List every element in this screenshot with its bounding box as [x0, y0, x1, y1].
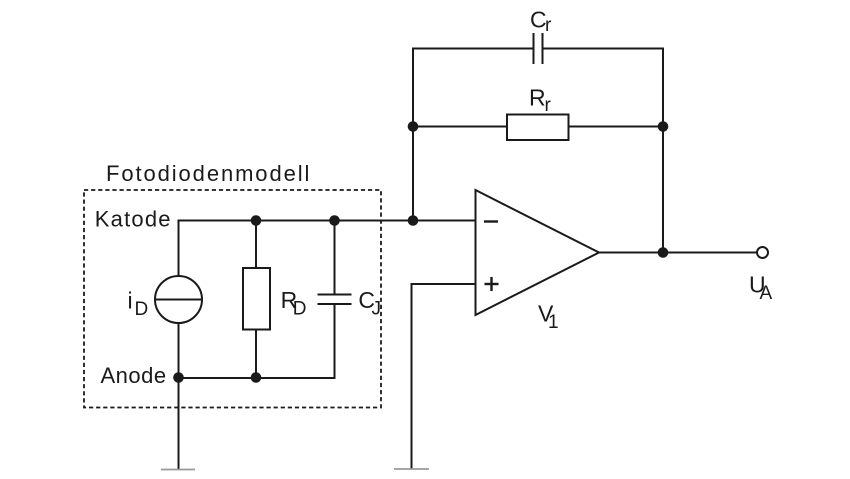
wire CJ bottom lead — [179, 304, 335, 378]
wire Cr left lead — [413, 49, 533, 221]
wire current source to anode — [178, 323, 180, 378]
wire Rr right lead — [569, 126, 664, 128]
svg-text:A: A — [760, 283, 773, 304]
wire anode to ground — [178, 377, 180, 470]
wire Rr left lead — [413, 126, 507, 128]
resistor RD — [243, 268, 270, 330]
svg-text:r: r — [545, 15, 552, 36]
node dot feedback left — [408, 121, 419, 132]
ground left — [161, 469, 195, 471]
svg-text:Fotodiodenmodell: Fotodiodenmodell — [106, 161, 311, 186]
label UA — [749, 272, 773, 304]
wire RD bottom lead — [255, 330, 257, 379]
wire RD top lead — [255, 221, 257, 269]
node dot katode CJ — [329, 215, 340, 226]
wire Cr right lead — [543, 49, 664, 253]
svg-text:1: 1 — [548, 312, 559, 333]
ground right — [394, 468, 429, 470]
node dot feedback right — [658, 121, 669, 132]
svg-text:D: D — [293, 299, 307, 320]
svg-text:i: i — [128, 287, 133, 313]
node dot anode RD — [251, 372, 262, 383]
current source iD — [155, 276, 202, 323]
terminal UA — [757, 247, 768, 258]
label Cr — [530, 6, 552, 36]
svg-text:R: R — [529, 85, 546, 111]
dashed box Fotodiodenmodell — [84, 190, 381, 408]
label CJ — [358, 287, 381, 319]
label Rr — [529, 85, 552, 117]
svg-text:D: D — [135, 299, 149, 320]
capacitor Cr — [534, 33, 543, 64]
wire CJ top lead — [334, 221, 336, 295]
node dot anode left — [173, 372, 184, 383]
label RD — [281, 287, 307, 319]
wire noninverting input — [412, 284, 476, 469]
node dot inverting input — [408, 215, 419, 226]
wire Katode horizontal — [179, 221, 476, 278]
svg-text:r: r — [545, 95, 552, 116]
wire output — [599, 252, 757, 254]
svg-text:J: J — [372, 299, 382, 320]
node dot output — [658, 247, 669, 258]
svg-text:Katode: Katode — [95, 206, 172, 231]
capacitor CJ — [318, 295, 352, 305]
node dot katode RD — [251, 215, 262, 226]
resistor Rr — [507, 115, 569, 141]
op-amp V1 — [476, 190, 600, 315]
label V1 — [538, 301, 559, 333]
svg-text:Anode: Anode — [101, 363, 167, 388]
label iD — [128, 287, 149, 319]
